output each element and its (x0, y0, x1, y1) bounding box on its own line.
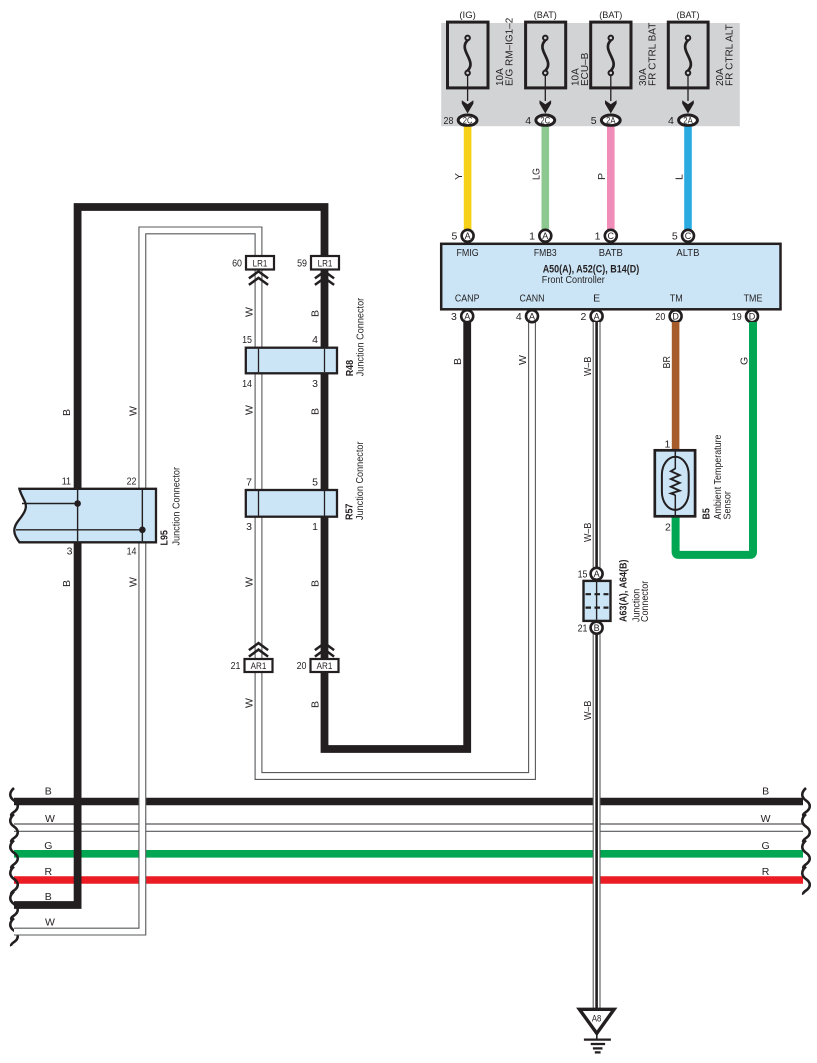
svg-text:(BAT): (BAT) (676, 10, 699, 21)
fuse F2 10A ECU-B (BAT) (525, 10, 591, 127)
svg-text:7: 7 (246, 477, 252, 489)
svg-text:B5: B5 (701, 508, 713, 520)
svg-text:21: 21 (231, 660, 241, 672)
connector LR1 pin 59 (297, 256, 339, 285)
wire P pink fuse F3 to BATB (596, 127, 611, 230)
svg-text:TME: TME (744, 293, 763, 305)
svg-text:B: B (452, 358, 464, 365)
svg-text:W: W (45, 813, 55, 825)
fuse F1 10A E/G RM-IG1-2 (IG) (444, 10, 516, 127)
bus end squiggles right (802, 788, 810, 895)
svg-text:FR CTRL BAT: FR CTRL BAT (648, 23, 659, 86)
svg-text:Front Controller: Front Controller (542, 274, 605, 286)
svg-text:W: W (244, 577, 256, 587)
svg-text:4: 4 (525, 115, 531, 127)
pin 2(A) E (580, 310, 602, 323)
wire label W below L95 (127, 577, 139, 587)
svg-text:60: 60 (232, 258, 242, 270)
wire W: L95 pin 14 down to bottom white bus (14, 541, 142, 931)
wire label W above L95 (127, 406, 139, 416)
svg-text:14: 14 (242, 378, 252, 390)
svg-text:Y: Y (453, 173, 465, 180)
svg-text:B: B (310, 580, 322, 587)
svg-text:15: 15 (242, 334, 252, 346)
svg-text:4: 4 (516, 311, 522, 323)
ground A8 (579, 1009, 614, 1052)
front controller A50(A), A52(C), B14(D) (441, 244, 780, 309)
svg-text:1: 1 (664, 439, 670, 451)
wire W: AR1-21 down, right, up to CANN (259, 322, 533, 776)
wire label B above L95 (61, 409, 73, 416)
wire G green from sensor B5 to TME (665, 322, 753, 555)
svg-text:D: D (672, 311, 679, 321)
svg-text:FMB3: FMB3 (534, 247, 557, 259)
svg-text:E: E (593, 293, 600, 305)
svg-text:A63(A), A64(B): A63(A), A64(B) (618, 560, 630, 623)
svg-text:AR1: AR1 (251, 661, 267, 672)
svg-text:A: A (529, 311, 535, 321)
svg-text:21: 21 (578, 623, 588, 635)
svg-text:C: C (685, 231, 692, 241)
svg-text:2A: 2A (683, 116, 692, 126)
svg-text:BATB: BATB (599, 247, 623, 259)
svg-text:20: 20 (297, 660, 307, 672)
pin 5(C) ALTB (672, 230, 694, 243)
svg-text:1: 1 (595, 231, 601, 243)
connector LR1 pin 60 (232, 256, 274, 285)
svg-text:AR1: AR1 (317, 661, 333, 672)
svg-text:B: B (594, 623, 600, 633)
junction connector R57 (246, 441, 366, 533)
junction connector L95 (14, 467, 182, 558)
svg-text:Junction Connector: Junction Connector (171, 467, 183, 546)
svg-text:(BAT): (BAT) (534, 10, 557, 21)
svg-text:Connector: Connector (639, 580, 651, 622)
pin 5(A) FMIG (451, 230, 473, 243)
svg-text:BR: BR (661, 356, 673, 369)
svg-text:5: 5 (591, 115, 597, 127)
pin 19(D) TME (732, 310, 758, 323)
pin 20(D) TM (655, 310, 681, 323)
fuse F4 20A FR CTRL ALT (BAT) (668, 10, 736, 127)
svg-text:11: 11 (62, 476, 71, 488)
svg-text:B: B (61, 409, 73, 416)
svg-text:Junction Connector: Junction Connector (355, 297, 367, 376)
wire labels W,B between R57 and AR1 (244, 577, 322, 587)
svg-text:5: 5 (312, 477, 318, 489)
svg-text:A: A (464, 311, 470, 321)
svg-text:W: W (127, 577, 139, 587)
svg-text:G: G (738, 357, 750, 365)
svg-text:A: A (465, 231, 471, 241)
svg-text:R: R (45, 866, 53, 878)
svg-text:14: 14 (127, 546, 137, 558)
wire W-B from E pin down to junction A63 (582, 322, 597, 568)
wire B thick: L95 pin 3 down to black bus stub (14, 541, 78, 905)
svg-text:2A: 2A (606, 116, 615, 126)
ambient temperature sensor B5 (655, 434, 734, 519)
svg-text:CANN: CANN (520, 293, 545, 305)
svg-text:5: 5 (672, 231, 678, 243)
svg-text:P: P (596, 173, 608, 180)
wire L blue fuse F4 to ALTB (673, 127, 688, 230)
svg-text:B: B (310, 310, 322, 317)
bus wire G green horizontal (14, 850, 803, 858)
svg-text:C: C (608, 231, 615, 241)
svg-text:(IG): (IG) (459, 10, 476, 21)
svg-text:B: B (61, 580, 73, 587)
wire W-B from junction A63 down to ground A8 (582, 523, 597, 1010)
svg-text:LG: LG (531, 168, 543, 180)
svg-text:19: 19 (732, 311, 742, 323)
svg-text:FR CTRL ALT: FR CTRL ALT (725, 24, 736, 86)
svg-text:A: A (594, 311, 600, 321)
pin 3(A) CANP (451, 310, 473, 323)
svg-text:A: A (594, 569, 600, 579)
junction connector A63(A), A64(B) (578, 560, 651, 635)
bus end squiggles left (10, 788, 18, 946)
svg-text:(BAT): (BAT) (599, 10, 622, 21)
svg-text:Sensor: Sensor (722, 491, 734, 520)
svg-text:R: R (762, 866, 770, 878)
svg-text:3: 3 (246, 521, 252, 533)
bus labels left (44, 786, 55, 929)
svg-text:W–B: W–B (582, 357, 594, 376)
svg-text:B: B (310, 408, 322, 415)
svg-text:59: 59 (297, 258, 307, 270)
svg-text:W–B: W–B (582, 523, 594, 542)
svg-text:E/G RM–IG1–2: E/G RM–IG1–2 (505, 17, 516, 86)
svg-text:L: L (673, 174, 685, 180)
wire LG light-green fuse F2 to FMB3 (531, 127, 546, 230)
svg-text:G: G (762, 840, 770, 852)
wire B thick: AR1-20 down, right, up to CANP (325, 322, 468, 749)
svg-text:4: 4 (668, 115, 674, 127)
svg-text:W: W (244, 307, 256, 317)
wire W: LR1-60 down through R48,R57 to AR1-21 (255, 269, 263, 660)
wire Y yellow fuse F1 to FMIG (453, 127, 468, 230)
svg-text:W–B: W–B (582, 701, 594, 720)
svg-text:W: W (244, 405, 256, 415)
svg-text:2C: 2C (540, 116, 550, 126)
wire label B on CANP wire (452, 358, 464, 365)
svg-text:A: A (542, 231, 548, 241)
svg-text:W: W (244, 698, 256, 708)
junction connector R48 (242, 297, 366, 390)
svg-text:W: W (127, 406, 139, 416)
svg-text:Junction Connector: Junction Connector (354, 441, 366, 520)
svg-text:20: 20 (655, 311, 665, 323)
svg-text:ALTB: ALTB (676, 247, 699, 259)
bus wire B black horizontal (14, 798, 803, 806)
fuse F3 30A FR CTRL BAT (BAT) (591, 10, 659, 127)
svg-text:3: 3 (451, 311, 457, 323)
wire B thick: L95 pin 11 up, across top, down to LR1-59 (78, 207, 325, 490)
svg-text:15: 15 (578, 569, 588, 581)
wire labels W,B between LR1 and R48 (244, 307, 322, 317)
connector AR1 pin 21 (231, 643, 273, 672)
bus wire R red horizontal (14, 876, 803, 884)
wire label W on CANN wire (517, 355, 529, 365)
svg-text:LR1: LR1 (253, 258, 268, 269)
connector AR1 pin 20 (297, 643, 339, 672)
wire labels W,B between R48 and R57 (244, 405, 322, 415)
svg-text:L95: L95 (159, 530, 171, 546)
svg-text:5: 5 (451, 231, 457, 243)
svg-text:FMIG: FMIG (456, 247, 478, 259)
pin 1(A) FMB3 (529, 230, 551, 243)
bus labels right (761, 786, 771, 879)
wire B thick: LR1-59 down through R48,R57 to AR1-20 (321, 269, 329, 660)
svg-text:B: B (310, 701, 322, 708)
svg-text:G: G (44, 840, 52, 852)
svg-text:1: 1 (529, 231, 535, 243)
svg-text:TM: TM (670, 293, 683, 305)
svg-text:B: B (762, 786, 769, 798)
svg-text:CANP: CANP (455, 293, 480, 305)
svg-text:B: B (45, 786, 52, 798)
svg-text:22: 22 (127, 476, 137, 488)
svg-text:1: 1 (312, 521, 318, 533)
wire BR brown from TM to sensor B5 (661, 322, 676, 451)
wire labels W,B below AR1 (244, 698, 322, 708)
bus wire W white horizontal (14, 824, 803, 831)
svg-text:W: W (45, 916, 55, 928)
wire label B below L95 (61, 580, 73, 587)
svg-text:D: D (749, 311, 756, 321)
svg-text:3: 3 (312, 378, 318, 390)
fuse block background (engine room R/B) (441, 23, 740, 126)
svg-text:28: 28 (444, 115, 454, 127)
svg-text:4: 4 (312, 334, 318, 346)
svg-text:W: W (761, 813, 771, 825)
pin 4(A) CANN (516, 310, 538, 323)
svg-text:A8: A8 (592, 1014, 601, 1024)
svg-text:2C: 2C (463, 116, 473, 126)
svg-text:2: 2 (580, 311, 586, 323)
svg-text:W: W (517, 355, 529, 365)
svg-text:LR1: LR1 (318, 258, 333, 269)
svg-text:2: 2 (665, 522, 671, 534)
wire W: L95 pin 22 up, across, down into LR1-60 (142, 230, 258, 490)
pin 1(C) BATB (595, 230, 617, 243)
svg-text:3: 3 (67, 546, 73, 558)
